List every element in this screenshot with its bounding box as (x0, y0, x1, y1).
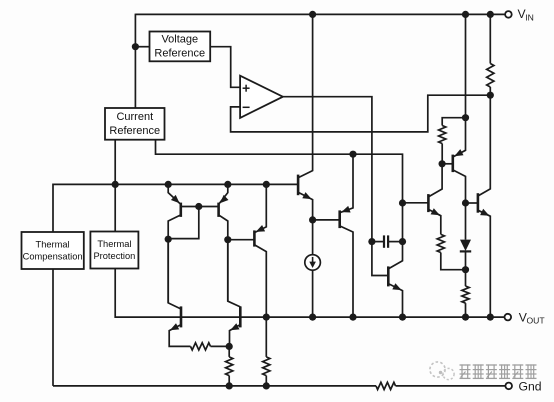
node Q3 collector at VOUT rail (263, 314, 270, 321)
transistor Q11 collector (478, 95, 490, 196)
svg-text:Compensation: Compensation (23, 252, 83, 262)
diode D1 (460, 203, 471, 270)
transistor Q10 bar (451, 155, 454, 173)
wire Voltage Reference left lead (135, 46, 149, 48)
node bias rail junction 3 (224, 181, 231, 188)
current source I1 (305, 220, 321, 317)
wire mirror base line (181, 206, 219, 208)
node Q8 emitter at VOUT rail (399, 314, 406, 321)
transistor Q5 collector (228, 240, 241, 307)
resistor R5 to ground (226, 346, 233, 386)
transistor Q6 collector (298, 14, 313, 177)
svg-text:Thermal: Thermal (97, 239, 131, 249)
label V_IN (518, 7, 534, 22)
node mirror base junction (195, 203, 202, 210)
block Thermal Compensation (22, 232, 84, 269)
wire ground rail (53, 385, 506, 387)
node I1 at VOUT rail (309, 314, 316, 321)
wire V_IN top rail (135, 13, 505, 15)
node Q9/Q10 base junction (439, 160, 446, 167)
transistor Q1 collector (168, 215, 181, 303)
svg-text:Voltage: Voltage (161, 33, 198, 45)
block Current Reference (105, 108, 165, 140)
transistor Q2 collector (219, 215, 228, 301)
svg-text:Gnd: Gnd (519, 380, 542, 394)
wire R4 to node (211, 345, 230, 347)
node Q10 collector junction (462, 199, 469, 206)
node bias rail junction 1 (112, 181, 119, 188)
wire Voltage Reference output to op-amp plus input (210, 47, 240, 88)
wire mirror base tie (168, 207, 199, 239)
capacitor C1 (372, 235, 403, 247)
node bias rail junction 2 (165, 181, 172, 188)
resistor R11 in ground rail (376, 382, 396, 389)
transistor Q1 bar (180, 203, 183, 217)
node A junction at Voltage Reference input (132, 43, 139, 50)
transistor Q3 base lead (228, 239, 255, 241)
node R5 ground junction (226, 382, 233, 389)
node Q7 collector at VOUT rail (349, 314, 356, 321)
wire Thermal Protection to VOUT rail (115, 269, 504, 318)
transistor Q3 emitter (254, 184, 266, 232)
node Q5 emitter junction (226, 343, 233, 350)
transistor Q10 base lead (442, 163, 453, 165)
node R10 at VOUT rail (462, 314, 469, 321)
node D1 cathode junction (462, 266, 469, 273)
node compensation cap left junction (368, 238, 375, 245)
wire left vertical from VIN rail to Current Reference (134, 14, 136, 108)
node Q8 base-line junction (399, 199, 406, 206)
node Q2 collector junction (224, 236, 231, 243)
transistor Q8 collector (388, 242, 402, 269)
transistor Q3 bar (253, 230, 256, 246)
svg-text:Reference: Reference (154, 48, 205, 60)
node Q6 collector at VIN rail (309, 11, 316, 18)
node R9 at VIN rail (487, 11, 494, 18)
node compensation cap right junction (399, 238, 406, 245)
transistor Q9 collector (428, 164, 442, 197)
transistor Q11 bar (477, 193, 480, 213)
svg-text:IN: IN (525, 12, 534, 22)
transistor Q7 bar (338, 210, 341, 228)
node Q1 collector junction (165, 236, 172, 243)
node Q11 emitter at VOUT rail (487, 314, 494, 321)
transistor Q11 base lead (466, 202, 478, 204)
block Thermal Protection (90, 232, 138, 269)
terminal V_OUT (505, 314, 512, 321)
wire bias rail (53, 184, 298, 232)
op-amp U1 (240, 76, 283, 118)
wire op-amp minus input feedback line (231, 95, 491, 132)
svg-text:Thermal: Thermal (36, 239, 70, 249)
label Gnd (519, 380, 542, 394)
transistor Q7 collector (340, 226, 353, 317)
node feedback tap junction (487, 92, 494, 99)
label V_OUT (519, 311, 546, 326)
resistor R4 emitter degeneration (191, 343, 211, 350)
wire R7 to diode node (441, 253, 466, 270)
svg-text:Protection: Protection (93, 251, 135, 261)
transistor Q4 emitter (169, 323, 190, 346)
transistor Q6 bar (297, 175, 300, 196)
wire Q9 base lead (403, 202, 429, 204)
transistor Q2 emitter (219, 184, 229, 204)
svg-text:Reference: Reference (109, 125, 160, 137)
transistor Q2 bar (217, 203, 220, 217)
transistor Q7 base lead (313, 219, 340, 221)
transistor Q8 emitter (388, 283, 402, 317)
wire op-amp output to Q8 base (283, 97, 388, 276)
resistor R9 (487, 14, 494, 95)
transistor Q10 collector (453, 170, 466, 203)
transistor Q6 emitter (298, 192, 313, 220)
terminal Gnd (505, 383, 512, 390)
wire Current Reference left output down to bias rail (114, 140, 116, 186)
transistor Q1 emitter (168, 184, 181, 204)
transistor Q5 emitter (230, 323, 241, 346)
node Q10 emitter at VIN rail (462, 11, 469, 18)
svg-text:OUT: OUT (527, 316, 546, 326)
resistor R6 VOUT to ground (263, 317, 270, 386)
node Q6 emitter junction (309, 216, 316, 223)
transistor Q4 bar (180, 306, 183, 327)
terminal V_IN (505, 11, 512, 18)
wire Thermal Compensation to ground rail (52, 269, 54, 386)
svg-text:Current: Current (116, 111, 153, 123)
transistor Q4 collector (168, 239, 181, 309)
transistor Q9 bar (427, 194, 430, 212)
transistor Q3 collector (254, 245, 266, 317)
watermark logo and text (430, 362, 537, 380)
resistor R8 (439, 118, 466, 164)
block Voltage Reference (150, 32, 211, 62)
wire Thermal Protection top lead (114, 184, 116, 231)
transistor Q5 bar (239, 306, 242, 327)
transistor Q7 emitter (340, 154, 353, 213)
wire Current Reference right output (156, 140, 403, 242)
node Q10 emitter branch junction (462, 114, 469, 121)
node bias tap junction (349, 151, 356, 158)
resistor R10 (462, 270, 469, 317)
resistor R7 Q9 emitter (437, 234, 444, 252)
node R6 ground junction (263, 382, 270, 389)
transistor Q9 emitter (428, 208, 440, 234)
node bias rail junction 4 (263, 181, 270, 188)
transistor Q8 bar (387, 266, 390, 286)
transistor Q10 emitter (453, 14, 466, 157)
transistor Q11 emitter (478, 209, 490, 317)
